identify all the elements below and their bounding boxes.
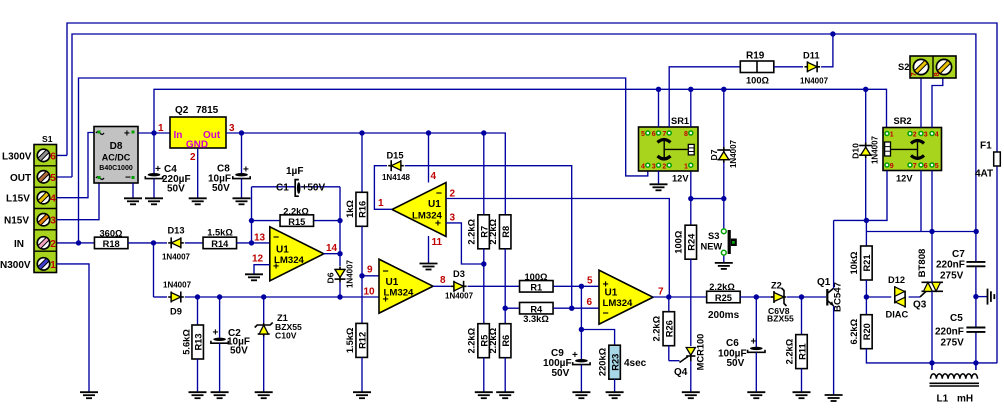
triac Q3 BT808 — [922, 282, 944, 291]
ground Q2 — [189, 198, 207, 204]
diode D11 1N4007 — [805, 61, 821, 72]
svg-text:100Ω: 100Ω — [525, 272, 549, 282]
pin 1 output wire to D15 loop — [374, 166, 392, 210]
resistor R8 2.2k — [504, 214, 506, 215]
ground Q1 — [825, 395, 843, 401]
svg-text:220nF: 220nF — [935, 327, 964, 338]
wire pin2 feedback to pin7 node — [446, 199, 669, 298]
svg-text:Z2: Z2 — [771, 281, 782, 291]
pin 2 SR2 — [908, 132, 912, 136]
svg-text:+: + — [243, 165, 249, 176]
svg-text:1N4007: 1N4007 — [871, 135, 880, 164]
svg-text:+: + — [751, 337, 757, 348]
svg-text:275V: 275V — [940, 271, 964, 282]
thyristor Q4 MCR100 — [686, 348, 695, 356]
wire Q4 cathode to ground — [690, 361, 692, 392]
svg-text:3.3kΩ: 3.3kΩ — [523, 314, 549, 324]
svg-text:7: 7 — [913, 163, 917, 170]
svg-text:6: 6 — [50, 151, 56, 162]
svg-text:D7: D7 — [709, 149, 719, 160]
svg-text:D6: D6 — [326, 272, 336, 283]
svg-text:Q4: Q4 — [674, 367, 688, 378]
wire R20 to L1 row — [866, 348, 997, 363]
wire U1b output to D3 — [433, 285, 454, 287]
svg-text:Q1: Q1 — [817, 277, 831, 288]
svg-text:U1: U1 — [428, 199, 441, 210]
svg-text:6: 6 — [587, 297, 593, 308]
svg-text:+: + — [213, 328, 219, 339]
svg-text:275V: 275V — [941, 338, 965, 349]
svg-text:1N4007: 1N4007 — [162, 253, 191, 262]
wire D15 row to pin6 column — [405, 166, 572, 308]
zener Z2 C6V8 BZX55 — [771, 288, 787, 306]
wire S1-4 L15V to D8 — [57, 133, 95, 198]
capacitor C9 100uF — [573, 359, 590, 365]
wire D9 row to U1b pin10 — [185, 296, 379, 298]
capacitor C5 220nF — [966, 328, 985, 332]
wire pin3 jog to R7 R5 divider — [446, 223, 484, 264]
svg-text:1: 1 — [158, 123, 164, 134]
node C6 branch — [754, 294, 759, 299]
svg-text:−: − — [603, 308, 609, 320]
wire Q1 emitter to ground — [833, 306, 835, 395]
svg-text:4AT: 4AT — [975, 169, 993, 180]
svg-text:3: 3 — [450, 213, 456, 224]
svg-text:SR2: SR2 — [894, 116, 912, 126]
SR1 contacts — [658, 140, 671, 143]
wire D11 to OUT rail — [821, 34, 833, 67]
ground S3 — [715, 263, 733, 269]
wire SR2 pin3 up to S2 — [920, 78, 922, 128]
node R15 right — [337, 218, 342, 223]
svg-text:F1: F1 — [980, 141, 992, 152]
ground Z1 — [255, 392, 273, 398]
resistor R26 2.2k — [668, 297, 670, 313]
ground R5 — [475, 392, 493, 398]
node pin9 — [359, 273, 364, 278]
svg-text:1N4148: 1N4148 — [382, 173, 411, 182]
svg-text:BT808: BT808 — [917, 248, 928, 277]
wire Z2 to Q1 base — [787, 296, 827, 298]
relay SR2 — [883, 128, 942, 171]
terminal block S1 — [34, 145, 57, 273]
svg-text:C5: C5 — [950, 313, 963, 324]
resistor R11 2.2k — [801, 297, 803, 335]
node DIAC node — [864, 294, 869, 299]
screw terminal S1-5 — [37, 171, 49, 183]
ground C6 — [747, 392, 765, 398]
node R11 branch — [799, 294, 804, 299]
svg-text:R21: R21 — [862, 254, 872, 271]
svg-text:R12: R12 — [358, 332, 368, 349]
node pin6 divider — [503, 306, 508, 311]
svg-text:4: 4 — [641, 163, 645, 170]
wire Q1 collector — [833, 220, 835, 288]
capacitor C4 220uF — [153, 133, 155, 173]
resistor R1 100 — [520, 281, 554, 293]
wire SR2 pin5 down to triac — [931, 171, 933, 232]
svg-text:R25: R25 — [715, 293, 732, 303]
capacitor C6 100uF — [755, 297, 757, 347]
svg-text:50V: 50V — [230, 346, 248, 357]
inductor L1 — [931, 363, 933, 370]
node C9 R23 branch — [579, 327, 584, 332]
svg-text:2: 2 — [190, 152, 196, 163]
resistor R14 — [203, 237, 237, 249]
resistor R6 2.2k — [499, 324, 511, 358]
screw terminal S1-1 — [37, 258, 49, 270]
ground R12 — [353, 392, 371, 398]
wire R19 to D11 — [774, 66, 803, 68]
svg-text:L300V: L300V — [2, 151, 32, 162]
wire pin1 net to D7 S3 — [691, 198, 724, 200]
wire L300V rail top — [57, 23, 998, 363]
node U1a output — [337, 251, 342, 256]
node rail89 junctions — [656, 87, 661, 92]
ground R6 — [496, 392, 514, 398]
DIAC D12 — [895, 286, 905, 307]
svg-text:360Ω: 360Ω — [100, 229, 124, 239]
svg-text:SR1: SR1 — [671, 116, 689, 126]
node D13 branch — [151, 240, 156, 245]
svg-text:S3: S3 — [708, 231, 719, 241]
pin 4 supply wire — [428, 133, 430, 183]
svg-text:C7: C7 — [952, 249, 965, 260]
screw terminal S1-4 — [37, 192, 49, 204]
svg-text:U1: U1 — [605, 288, 618, 299]
diode D15 1N4148 — [388, 160, 404, 171]
op-amp U1b LM324 pins 9 10 8 — [379, 259, 433, 313]
SR2 coil — [885, 142, 891, 156]
svg-text:4: 4 — [935, 132, 939, 139]
svg-text:2: 2 — [50, 239, 56, 250]
svg-text:R1: R1 — [530, 283, 542, 293]
wire SR1 pin8 to rail — [690, 89, 692, 127]
svg-text:1N4007: 1N4007 — [729, 139, 738, 168]
svg-text:6.2kΩ: 6.2kΩ — [849, 318, 859, 344]
transistor Q1 BC547 — [826, 289, 828, 306]
svg-text:5: 5 — [935, 163, 939, 170]
ground R13 — [189, 392, 207, 398]
svg-text:D3: D3 — [453, 269, 465, 279]
wire S1-3 N15V to D8 — [57, 183, 100, 220]
svg-text:5: 5 — [587, 276, 593, 287]
svg-text:7: 7 — [662, 131, 666, 138]
svg-text:10: 10 — [364, 287, 376, 298]
node triac gate rail — [929, 229, 934, 234]
wire R24 to Q4 anode — [690, 259, 692, 346]
wire SR1 pin1 column to Q4 — [690, 171, 692, 226]
svg-text:5.6kΩ: 5.6kΩ — [182, 329, 192, 355]
resistor R25 2.2k — [707, 291, 741, 303]
svg-text:5: 5 — [50, 173, 56, 184]
svg-text:−: − — [273, 232, 279, 244]
voltage regulator Q2 7815 — [170, 117, 226, 148]
wire DIAC row — [866, 296, 920, 298]
resistor R13 5.6k — [197, 297, 199, 325]
node C7 C5 earth — [973, 294, 978, 299]
wire R18 to D13 — [128, 242, 167, 244]
svg-text:9: 9 — [367, 265, 373, 276]
wire +15V rail from Q2 Out — [226, 133, 505, 215]
svg-text:2.2kΩ: 2.2kΩ — [709, 282, 735, 292]
svg-text:100Ω: 100Ω — [673, 230, 683, 254]
svg-text:1N4007: 1N4007 — [346, 259, 355, 288]
svg-text:L1: L1 — [937, 394, 949, 405]
wire U1d output row — [653, 296, 707, 298]
svg-text:13: 13 — [254, 233, 266, 244]
push button S3 NEW — [721, 229, 726, 234]
ground C2 — [211, 392, 229, 398]
SR2 contacts — [911, 141, 924, 144]
svg-text:D12: D12 — [888, 275, 905, 285]
svg-text:In: In — [174, 130, 183, 141]
svg-text:GND: GND — [186, 140, 208, 151]
svg-text:MCR100: MCR100 — [696, 334, 706, 371]
wire Q3 MT1 — [931, 291, 933, 363]
wire unregulated +20V rail y89 — [154, 89, 887, 133]
svg-text:4: 4 — [50, 194, 56, 205]
svg-text:8: 8 — [932, 72, 941, 76]
diode D7 1N4007 — [723, 89, 725, 147]
wire feedback left vertical — [251, 187, 253, 243]
svg-text:1µF: 1µF — [286, 166, 303, 177]
svg-text:R18: R18 — [103, 239, 120, 249]
node D7 S3 junction — [721, 196, 726, 201]
wire R14 to U1a pin13 — [237, 242, 270, 244]
node pin6 — [569, 306, 574, 311]
resistor R16 1k — [361, 133, 363, 192]
svg-text:OUT: OUT — [10, 173, 31, 184]
svg-text:50V: 50V — [727, 358, 745, 369]
wire OUT rail — [57, 34, 976, 363]
ground C9 — [572, 392, 590, 398]
wire IN row — [79, 242, 95, 244]
wire IN net vertical and y78 rail to SR1 pin4 — [57, 78, 648, 243]
op-amp U1a LM324 pins 13 12 14 — [270, 227, 324, 281]
op-amp U1d LM324 pins 5 6 7 — [599, 270, 653, 324]
svg-text:S1: S1 — [42, 134, 53, 144]
svg-text:D10: D10 — [851, 143, 861, 159]
wire S1-1 N300V to ground — [57, 264, 90, 392]
svg-text:N15V: N15V — [4, 216, 29, 227]
wire S3 to ground — [723, 256, 725, 263]
resistor R18 — [94, 237, 128, 249]
svg-text:220nF: 220nF — [936, 260, 965, 271]
svg-text:BZX55: BZX55 — [767, 314, 794, 324]
svg-text:Q3: Q3 — [913, 300, 927, 311]
svg-text:200ms: 200ms — [708, 310, 740, 321]
node D10 anode — [864, 218, 869, 223]
resistor R5 2.2k — [478, 324, 490, 358]
screw terminal S1-3 — [37, 214, 49, 226]
svg-text:U1: U1 — [276, 245, 289, 256]
svg-text:1.5kΩ: 1.5kΩ — [207, 228, 233, 238]
svg-text:1kΩ: 1kΩ — [345, 200, 355, 218]
svg-text:R19: R19 — [746, 51, 765, 62]
wire R16 to pin9 — [361, 226, 363, 275]
SR1 coil — [688, 144, 694, 155]
pin 6 SR2 — [919, 163, 923, 167]
wire D13 to R14 — [185, 242, 203, 244]
wire SR1 pin3 to ground — [658, 171, 660, 184]
wire SR2 pin9 to Q1 collector rail — [834, 171, 887, 221]
earth ground right — [976, 296, 987, 298]
resistor R23 220k — [581, 330, 614, 346]
svg-text:220kΩ: 220kΩ — [597, 347, 607, 376]
svg-text:+: + — [273, 261, 279, 273]
wire D13 node down to D9 — [153, 243, 155, 297]
wire R26 to Q4 gate — [669, 360, 680, 362]
diode D3 1N4007 — [451, 281, 467, 292]
svg-text:2: 2 — [662, 163, 666, 170]
svg-text:12: 12 — [252, 254, 264, 265]
capacitor C2 10uF — [219, 297, 221, 338]
svg-text:+50V: +50V — [302, 183, 326, 194]
svg-text:R24: R24 — [687, 233, 697, 251]
ground R11 — [793, 392, 811, 398]
svg-text:2: 2 — [913, 132, 917, 139]
resistor R7 2.2k — [483, 133, 485, 215]
svg-text:+: + — [383, 294, 389, 306]
svg-text:9: 9 — [890, 163, 894, 170]
diode D6 1N4007 — [339, 254, 341, 266]
svg-text:1N4007: 1N4007 — [163, 281, 192, 290]
svg-text:1N4007: 1N4007 — [445, 292, 474, 301]
ground Q4 — [682, 392, 700, 398]
svg-text:R4: R4 — [530, 304, 543, 314]
diode D9 1N4007 — [154, 296, 168, 298]
svg-text:2.2kΩ: 2.2kΩ — [488, 327, 498, 353]
wire D8 plus to Q2 — [138, 132, 170, 134]
svg-text:mH: mH — [957, 394, 973, 405]
svg-text:1: 1 — [50, 260, 56, 271]
svg-text:D13: D13 — [167, 226, 184, 236]
screw terminal S2-7 — [913, 59, 928, 74]
node IN junction — [76, 240, 81, 245]
svg-text:R26: R26 — [665, 320, 675, 337]
svg-text:R13: R13 — [194, 333, 204, 350]
zener Z1 BZX55 C10V — [263, 297, 265, 323]
screw terminal S1-2 — [37, 237, 49, 249]
node pin7 — [666, 294, 671, 299]
ground N300V — [80, 392, 98, 398]
resistor R12 1.5k — [361, 276, 363, 324]
fuse F1 4AT — [994, 152, 1001, 166]
svg-text:Q2: Q2 — [175, 105, 189, 116]
pin 4 SR2 — [930, 132, 934, 136]
svg-text:50V: 50V — [552, 368, 570, 379]
node pin3 divider — [481, 261, 486, 266]
svg-text:−: − — [383, 266, 389, 278]
wire U1a output — [324, 253, 340, 255]
svg-text:7815: 7815 — [196, 105, 219, 116]
wire R1 to U1d pin5 — [554, 285, 600, 287]
node OUT-D11 junction — [830, 31, 835, 36]
svg-text:6: 6 — [924, 163, 928, 170]
svg-text:R14: R14 — [211, 239, 229, 249]
pin 3 SR2 — [919, 132, 923, 136]
svg-text:R23: R23 — [610, 354, 620, 371]
svg-text:2.2kΩ: 2.2kΩ — [784, 338, 794, 364]
node D9 row junctions — [195, 294, 200, 299]
wire SR1 pin6 to rail — [658, 89, 660, 127]
svg-text:R11: R11 — [797, 343, 807, 360]
svg-text:U1: U1 — [386, 277, 399, 288]
wire D10 rail to R21 and triac rail — [866, 220, 976, 248]
svg-text:L15V: L15V — [6, 194, 30, 205]
diode D13 1N4007 — [168, 237, 184, 248]
bridge rectifier D8 — [94, 127, 138, 184]
ground C8 — [233, 198, 251, 204]
svg-text:4: 4 — [431, 171, 437, 182]
op-amp U1c LM324 pins 2 3 1 — [392, 183, 446, 237]
ground SR1 pin3 — [650, 184, 668, 190]
svg-text:R16: R16 — [358, 201, 368, 218]
wire SR2 pin6 down — [920, 171, 922, 232]
svg-text:5: 5 — [641, 131, 645, 138]
terminal block S2 — [910, 56, 956, 78]
svg-text:DIAC: DIAC — [886, 310, 909, 320]
svg-text:10kΩ: 10kΩ — [849, 251, 859, 275]
svg-text:1: 1 — [890, 132, 894, 139]
svg-text:3: 3 — [50, 216, 56, 227]
svg-text:D8: D8 — [110, 141, 123, 152]
resistor R24 100 — [685, 225, 697, 259]
capacitor C7 220nF — [966, 262, 985, 266]
svg-text:D15: D15 — [386, 151, 403, 161]
svg-text:+: + — [155, 164, 161, 175]
svg-text:12V: 12V — [672, 174, 689, 184]
svg-text:AC/DC: AC/DC — [102, 153, 131, 163]
pin 12 wire and ground — [254, 265, 270, 275]
pin 11 wire and ground — [428, 236, 430, 263]
svg-text:4sec: 4sec — [624, 358, 647, 369]
svg-text:+: + — [572, 350, 578, 361]
svg-text:12V: 12V — [896, 174, 913, 184]
svg-text:1N4007: 1N4007 — [800, 77, 829, 86]
svg-text:6: 6 — [652, 131, 656, 138]
relay SR1 — [639, 127, 699, 171]
svg-text:IN: IN — [14, 239, 24, 250]
capacitor C1 1uF — [252, 186, 341, 188]
node R15 left — [249, 218, 254, 223]
resistor R4 3.3k — [505, 307, 519, 309]
svg-text:C1: C1 — [276, 183, 289, 194]
svg-text:D11: D11 — [803, 51, 820, 61]
svg-text:8: 8 — [684, 131, 688, 138]
diode D10 1N4007 — [865, 89, 867, 142]
svg-text:−: − — [436, 188, 442, 200]
wire D3 to R1 — [468, 285, 520, 287]
svg-text:11: 11 — [432, 237, 443, 248]
svg-text:+: + — [124, 129, 130, 140]
screw terminal S1-6 — [37, 149, 49, 161]
ground R23 — [606, 392, 624, 398]
svg-text:R8: R8 — [501, 226, 511, 238]
svg-text:2.2kΩ: 2.2kΩ — [467, 218, 477, 244]
screw terminal S2-8 — [936, 59, 951, 74]
svg-text:NEW: NEW — [701, 241, 723, 251]
resistor R20 6.2k — [861, 315, 873, 349]
svg-text:7: 7 — [658, 287, 664, 298]
wire SR1 pin7 up to R19 — [669, 67, 740, 127]
wire pin5 to C9 — [580, 286, 582, 359]
svg-text:50V: 50V — [167, 184, 185, 195]
wire R21 to R20 — [865, 280, 867, 320]
svg-text:B40C1000: B40C1000 — [99, 165, 133, 172]
svg-text:14: 14 — [326, 243, 338, 254]
